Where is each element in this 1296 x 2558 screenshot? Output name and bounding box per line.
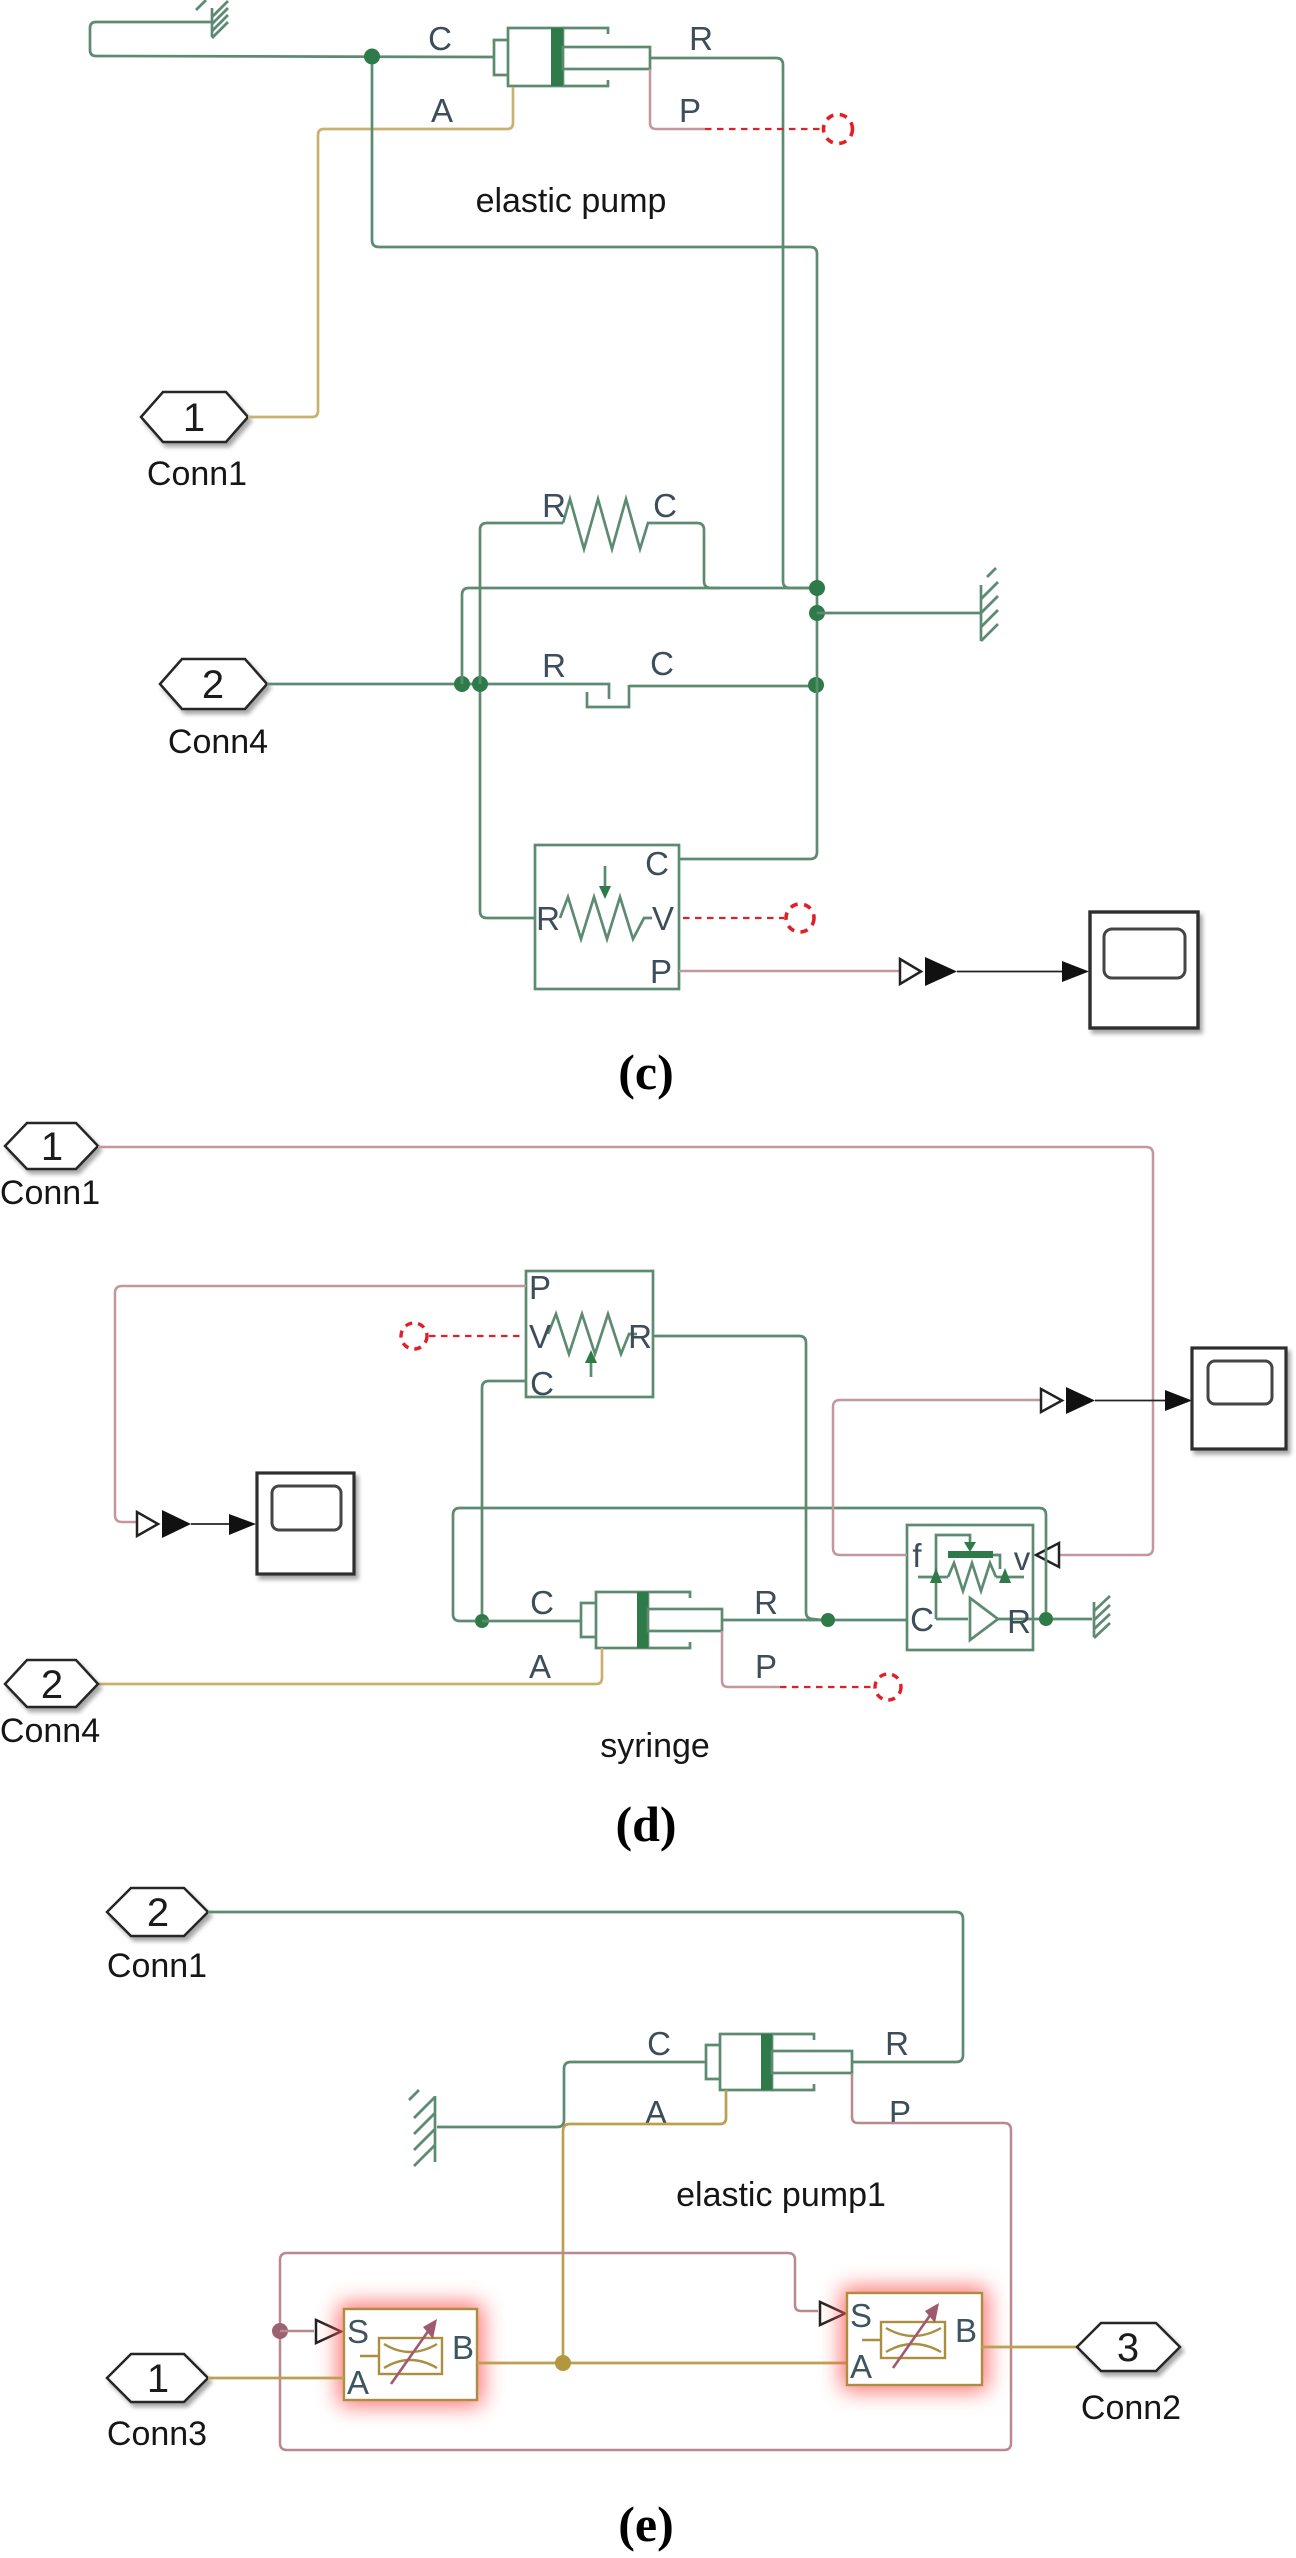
svg-text:elastic pump: elastic pump <box>476 182 667 220</box>
port block hexagon 2 (Conn4 d) <box>5 1660 98 1707</box>
wire: Conn1 to cylinder R port (green) <box>208 1912 963 2062</box>
wire: Conn1 to cylinder A port (tan) <box>248 87 513 417</box>
port block hexagon 1 (Conn1 d) <box>5 1123 98 1169</box>
svg-text:R: R <box>542 647 566 684</box>
physical signal triangle into left valve S <box>316 2320 341 2343</box>
wire: node N11 to left valve S triangle <box>280 2330 314 2333</box>
signal arrowhead into left scope <box>229 1514 256 1535</box>
wire: Conn3 to left valve A (tan) <box>208 2377 344 2380</box>
hard stop cup <box>587 685 629 707</box>
svg-text:Conn1: Conn1 <box>0 1174 100 1212</box>
wire: red dashed from V port <box>683 917 784 919</box>
svg-text:(e): (e) <box>618 2496 674 2552</box>
wire: right valve B to Conn2 (tan) <box>982 2346 1077 2349</box>
ground reference G2 (right) <box>981 568 998 641</box>
scope screen (c) <box>1104 929 1185 978</box>
port block hexagon 1 (Conn3) <box>107 2354 208 2402</box>
svg-text:2: 2 <box>147 1891 169 1935</box>
wire: big loop N7 to N9 <box>453 1508 1046 1621</box>
wire: spring right lead down to lower branch <box>651 523 720 588</box>
svg-text:1: 1 <box>147 2357 169 2401</box>
right valve glow highlight <box>841 2287 988 2391</box>
port block hexagon 3 (Conn2) <box>1077 2323 1180 2371</box>
wire: syringe R to converter C port <box>722 1619 907 1622</box>
wire: cylinder C to ground G4 <box>437 2062 706 2127</box>
svg-text:1: 1 <box>183 396 205 440</box>
signal arrowhead into scope (c) <box>1062 961 1089 982</box>
left valve glow highlight <box>338 2303 483 2406</box>
svg-text:Conn1: Conn1 <box>147 455 247 493</box>
translational converter block f/v (d) <box>907 1525 1033 1650</box>
port block hexagon 2 (Conn4) <box>160 659 267 709</box>
svg-text:P: P <box>889 2094 911 2131</box>
scope screen (d left) <box>272 1486 341 1530</box>
port block hexagon 1 (Conn1) <box>141 392 248 442</box>
wire: lower parallel branch N2 to N5 <box>462 588 810 684</box>
wire: red dashed from syringe P <box>780 1686 871 1688</box>
svg-text:C: C <box>653 487 677 524</box>
wire: f port to right converter (rose) <box>833 1400 1040 1555</box>
cylinder "elastic pump1" <box>706 2034 852 2090</box>
svg-text:syringe: syringe <box>600 1727 710 1765</box>
svg-text:R: R <box>885 2025 909 2062</box>
svg-text:1: 1 <box>41 1125 63 1169</box>
svg-text:B: B <box>955 2312 977 2349</box>
wire: spring branch left riser N3 up <box>480 523 563 684</box>
svg-text:2: 2 <box>41 1663 63 1707</box>
svg-text:2: 2 <box>202 663 224 707</box>
wire: P port signal line (thin rose) <box>679 970 899 973</box>
svg-text:v: v <box>1014 1540 1031 1577</box>
node N10 tan junction dot <box>555 2355 571 2371</box>
svg-text:A: A <box>431 92 453 129</box>
svg-text:R: R <box>628 1318 652 1355</box>
wire: left valve B to right valve A (tan) <box>477 2362 847 2365</box>
scope screen (d right) <box>1208 1361 1272 1404</box>
wire: P port to left converter (rose) <box>115 1286 526 1522</box>
unconnected port indicator V (d) <box>401 1323 427 1349</box>
svg-text:R: R <box>542 487 566 524</box>
svg-text:R: R <box>1007 1603 1031 1640</box>
scope block (d right) <box>1192 1348 1286 1449</box>
node N2 junction dot <box>454 676 470 692</box>
svg-text:C: C <box>910 1601 934 1638</box>
wire: node N6 to ground G2 <box>817 612 980 615</box>
wire: syringe A to Conn4 (tan) <box>98 1648 602 1684</box>
variable orifice valve left <box>344 2309 477 2400</box>
svg-text:Conn4: Conn4 <box>168 723 268 761</box>
unconnected port indicator (dashed red circle) <box>824 115 853 144</box>
svg-text:(d): (d) <box>615 1796 676 1852</box>
svg-text:Conn2: Conn2 <box>1081 2389 1181 2427</box>
svg-text:C: C <box>530 1365 554 1402</box>
wire: ground G1 to node N1 and cylinder C port <box>90 22 493 57</box>
cylinder "syringe" <box>581 1592 722 1648</box>
physical signal triangle into right valve S <box>820 2302 845 2325</box>
PS-Simulink converter arrows (d left) <box>137 1510 191 1538</box>
svg-text:C: C <box>650 645 674 682</box>
node N8 junction dot <box>821 1613 835 1627</box>
svg-text:C: C <box>428 20 452 57</box>
wire: cylinder P big loop to valve S ports (rose) <box>280 2073 1011 2450</box>
svg-text:S: S <box>347 2313 369 2350</box>
svg-text:P: P <box>650 953 672 990</box>
cylinder "elastic pump" (hydro-mechanical converter) <box>494 28 650 86</box>
svg-text:C: C <box>647 2025 671 2062</box>
svg-text:A: A <box>529 1648 551 1685</box>
node N11 junction dot (rose) <box>272 2323 288 2339</box>
svg-text:C: C <box>530 1584 554 1621</box>
wire: cylinder A down to tan node N10 <box>563 2090 726 2356</box>
svg-text:f: f <box>912 1537 922 1574</box>
svg-text:R: R <box>689 20 713 57</box>
svg-text:elastic pump1: elastic pump1 <box>676 2176 886 2214</box>
svg-text:P: P <box>679 92 701 129</box>
ground reference G1 (top-left) <box>196 0 228 38</box>
variable orifice valve right <box>847 2293 982 2385</box>
ground reference G4 (e) <box>409 2090 435 2166</box>
svg-text:Conn4: Conn4 <box>0 1712 100 1750</box>
svg-text:R: R <box>754 1584 778 1621</box>
wire: converter R to ground G3 <box>1033 1618 1092 1621</box>
spring (translational spring R-C) <box>563 499 651 549</box>
PS-Simulink converter arrows (c) <box>900 957 957 986</box>
physical signal input triangle at v port <box>1036 1543 1059 1567</box>
wire: node N3 down to variable resistance R port <box>480 692 535 918</box>
svg-text:A: A <box>850 2348 872 2385</box>
wire: cylinder R port down to node N5 <box>650 58 810 588</box>
svg-text:A: A <box>347 2364 369 2401</box>
svg-text:C: C <box>645 845 669 882</box>
wire: Conn4 horizontal to hard stop left lead <box>267 684 609 699</box>
wire: C port riser down to node N7 <box>482 1381 526 1614</box>
svg-text:S: S <box>850 2297 872 2334</box>
wire: Conn1 to v port of converter block (rose) <box>98 1147 1153 1555</box>
node N9 junction dot <box>1039 1612 1053 1626</box>
wire: hard stop right lead to node N4 <box>629 685 816 688</box>
signal line to left scope <box>191 1523 231 1525</box>
node N6 junction dot <box>809 605 825 621</box>
signal line to right scope <box>1095 1400 1167 1402</box>
scope block (d left) <box>257 1473 354 1574</box>
svg-text:P: P <box>755 1648 777 1685</box>
variable local resistance block (c) <box>535 845 679 989</box>
wire: red dashed V port (d) <box>429 1335 523 1337</box>
ground reference G3 (d) <box>1094 1596 1110 1638</box>
port block hexagon 2 (Conn1 e) <box>107 1888 208 1936</box>
wire: node N7 to syringe C port <box>482 1620 581 1623</box>
svg-text:Conn3: Conn3 <box>107 2415 207 2453</box>
node N3 junction dot <box>472 676 488 692</box>
wire: node N1 loop down-right to variable resistance C port <box>372 64 817 859</box>
signal line to scope (c) <box>957 971 1064 973</box>
svg-text:Conn1: Conn1 <box>107 1947 207 1985</box>
svg-text:V: V <box>652 900 674 937</box>
wire: red dashed unconnected segment from P <box>705 128 821 130</box>
wire: cylinder P port (solid rose) <box>650 69 705 129</box>
svg-text:B: B <box>452 2329 474 2366</box>
svg-text:A: A <box>645 2094 667 2131</box>
wire: R port riser down to node N8 <box>653 1336 822 1620</box>
node N7 junction dot <box>475 1614 489 1628</box>
PS-Simulink converter arrows (d right) <box>1041 1387 1095 1414</box>
signal arrowhead into right scope <box>1165 1390 1192 1411</box>
node N1 junction dot <box>364 49 380 65</box>
node N4 junction dot <box>808 677 824 693</box>
node N5 junction dot <box>809 580 825 596</box>
svg-text:P: P <box>529 1269 551 1306</box>
unconnected port indicator P (d) <box>875 1674 901 1700</box>
svg-text:V: V <box>529 1318 551 1355</box>
unconnected port indicator V (dashed red circle) <box>786 904 814 932</box>
variable local resistance block (d, flipped) <box>526 1271 653 1397</box>
wire: syringe P down (rose) <box>722 1631 780 1687</box>
scope block (c) <box>1090 912 1198 1028</box>
svg-text:3: 3 <box>1117 2326 1139 2370</box>
svg-text:R: R <box>536 900 560 937</box>
svg-text:(c): (c) <box>618 1044 674 1100</box>
